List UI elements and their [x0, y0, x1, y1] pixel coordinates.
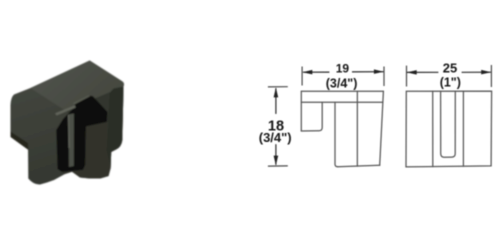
svg-text:(1"): (1")	[440, 75, 461, 89]
dim 18: lower arrow	[275, 144, 277, 165]
dim 25: left line + arrow	[407, 71, 438, 73]
side view: hook left edge	[300, 91, 302, 131]
dim 25: left extension line	[406, 66, 408, 87]
side view: hook bottom edge with rounded corner	[301, 102, 322, 131]
photo: slot inner tongue	[68, 114, 74, 168]
technical drawings	[301, 91, 491, 167]
photo: part silhouette / front-left face base	[11, 61, 124, 185]
svg-text:(3/4"): (3/4")	[259, 130, 292, 145]
dimension texts	[259, 61, 461, 146]
svg-text:(3/4"): (3/4")	[326, 77, 358, 91]
photo: flange underside shadow	[11, 132, 29, 151]
front view: outer rectangle	[406, 91, 492, 167]
side view: middle vertical line	[356, 91, 358, 166]
dim 18: upper arrow	[275, 88, 277, 114]
dim 18: bottom tick	[268, 165, 288, 167]
front view: slot outer left line	[432, 91, 434, 166]
side view: bottom edge	[338, 165, 380, 166]
photo: front-right face	[65, 87, 123, 179]
dim 25: right line + arrow	[462, 71, 491, 73]
dim 19: right line + arrow	[352, 71, 384, 73]
dim 19: left line + arrow	[303, 71, 329, 73]
dim 19: left extension line	[301, 67, 303, 86]
side view: right edge	[380, 91, 384, 165]
svg-text:25: 25	[443, 61, 457, 76]
front view: slot inner U	[441, 91, 456, 157]
front view: slot outer right line	[462, 91, 464, 166]
photo: top cut edge highlight	[73, 95, 91, 104]
dim 19: right extension line	[383, 67, 385, 87]
photo: top face of flange	[31, 61, 124, 111]
photo: slot window and top opening (black)	[56, 96, 107, 173]
side view: leg left edge with rounded corner	[335, 102, 338, 167]
side view: flange inner line	[301, 101, 383, 103]
photo: channel bottom lip	[62, 122, 111, 179]
photo: tongue left edge highlight	[68, 115, 71, 148]
dim 18: top tick	[268, 86, 288, 88]
svg-text:19: 19	[336, 62, 350, 76]
product photo: black plastic retainer clip	[11, 61, 124, 185]
side view: top edge	[301, 90, 383, 92]
dim 25: right extension line	[490, 65, 492, 87]
photo: right side shading band	[107, 87, 124, 175]
dimension graphics	[268, 65, 492, 166]
photo: window top edge highlight	[55, 105, 75, 115]
